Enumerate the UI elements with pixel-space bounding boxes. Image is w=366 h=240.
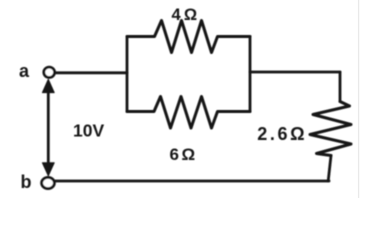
wire resistor 2.6ohm to bottom wire <box>328 156 331 182</box>
svg-text:4Ω: 4Ω <box>172 6 201 24</box>
resistor 2.6ohm (vertical) <box>310 102 351 156</box>
wire down to resistor 2.6ohm <box>339 72 342 102</box>
wire: parallel box right edge <box>249 37 252 112</box>
svg-text:a: a <box>19 61 30 81</box>
terminal a <box>44 67 55 77</box>
resistor 6ohm (bottom branch) <box>127 97 250 129</box>
wire a to parallel box <box>55 71 127 74</box>
svg-text:2.6Ω: 2.6Ω <box>257 124 307 144</box>
terminal b <box>42 177 55 188</box>
scan page edge artifact <box>358 0 360 198</box>
voltage source arrow 10V <box>42 79 54 176</box>
resistor 4ohm (top branch) <box>127 21 250 53</box>
wire b to bottom right corner <box>55 180 329 183</box>
wire: parallel box left edge <box>126 37 129 112</box>
svg-text:b: b <box>21 172 32 192</box>
svg-text:10V: 10V <box>73 120 104 140</box>
wire parallel box to right side <box>250 71 340 74</box>
svg-text:6Ω: 6Ω <box>170 145 198 164</box>
